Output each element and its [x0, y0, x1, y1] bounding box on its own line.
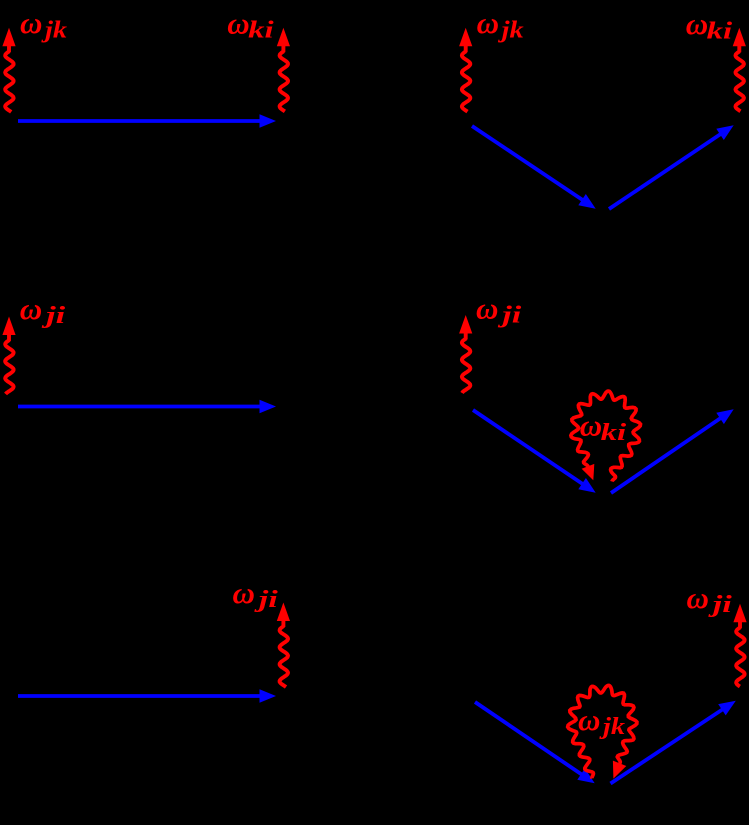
fermion line A3 (horizontal blue arrow) [18, 114, 276, 128]
fermion line C2 (horizontal blue arrow) [18, 400, 276, 414]
photon A2 omega_ki (right, upward arrow) [277, 28, 290, 112]
svg-text:ki: ki [707, 18, 733, 44]
svg-text:ω: ω [476, 291, 498, 326]
label omega_ji (C) [20, 291, 66, 329]
svg-text:jk: jk [598, 714, 625, 740]
svg-text:ω: ω [227, 5, 249, 40]
svg-text:ω: ω [20, 5, 42, 40]
fermion line F1 (down-right blue arrow) [475, 702, 595, 783]
photon C1 omega_ji [2, 317, 15, 395]
svg-text:ω: ω [20, 291, 42, 326]
fermion line D2 (down-right blue arrow) [473, 410, 596, 493]
svg-text:ki: ki [601, 420, 627, 446]
svg-text:ω: ω [233, 575, 255, 610]
label omega_ji (E) [233, 575, 279, 613]
photon A1 omega_jk (left, upward arrow) [2, 28, 15, 112]
label omega_ki (B) [686, 6, 733, 44]
photon F3 omega_ji [733, 604, 746, 687]
label omega_jk (B) [477, 5, 524, 43]
label omega_ki (A) [227, 5, 274, 43]
svg-text:ω: ω [687, 580, 709, 615]
svg-text:ω: ω [580, 408, 602, 443]
label omega_ki (D loop) [580, 408, 627, 446]
photon loop F4 omega_jk (wavy loop, arrow into vertex) [568, 685, 637, 778]
label omega_ji (F) [687, 580, 733, 618]
fermion line F2 (up-right blue arrow) [611, 701, 736, 784]
photon loop D4 omega_ki (wavy loop, arrow into vertex) [571, 391, 641, 481]
photon E2 omega_ji [277, 603, 290, 688]
svg-text:ki: ki [248, 18, 274, 44]
label omega_jk (F loop) [578, 702, 625, 740]
label omega_ji (D) [476, 291, 522, 329]
fermion line B4 (up-right blue arrow) [609, 125, 734, 209]
label omega_jk (A) [20, 5, 67, 43]
fermion line D3 (up-right blue arrow) [611, 409, 734, 493]
svg-text:jk: jk [40, 17, 67, 43]
svg-text:ω: ω [686, 6, 708, 41]
svg-text:jk: jk [497, 17, 524, 43]
svg-text:ω: ω [477, 5, 499, 40]
photon D1 omega_ji [459, 315, 472, 393]
photon B1 omega_jk [459, 28, 472, 112]
svg-text:ω: ω [578, 702, 600, 737]
fermion line E1 (horizontal blue arrow) [18, 689, 276, 703]
photon B2 omega_ki [733, 28, 746, 112]
fermion line B3 (down-right blue arrow) [472, 126, 596, 209]
